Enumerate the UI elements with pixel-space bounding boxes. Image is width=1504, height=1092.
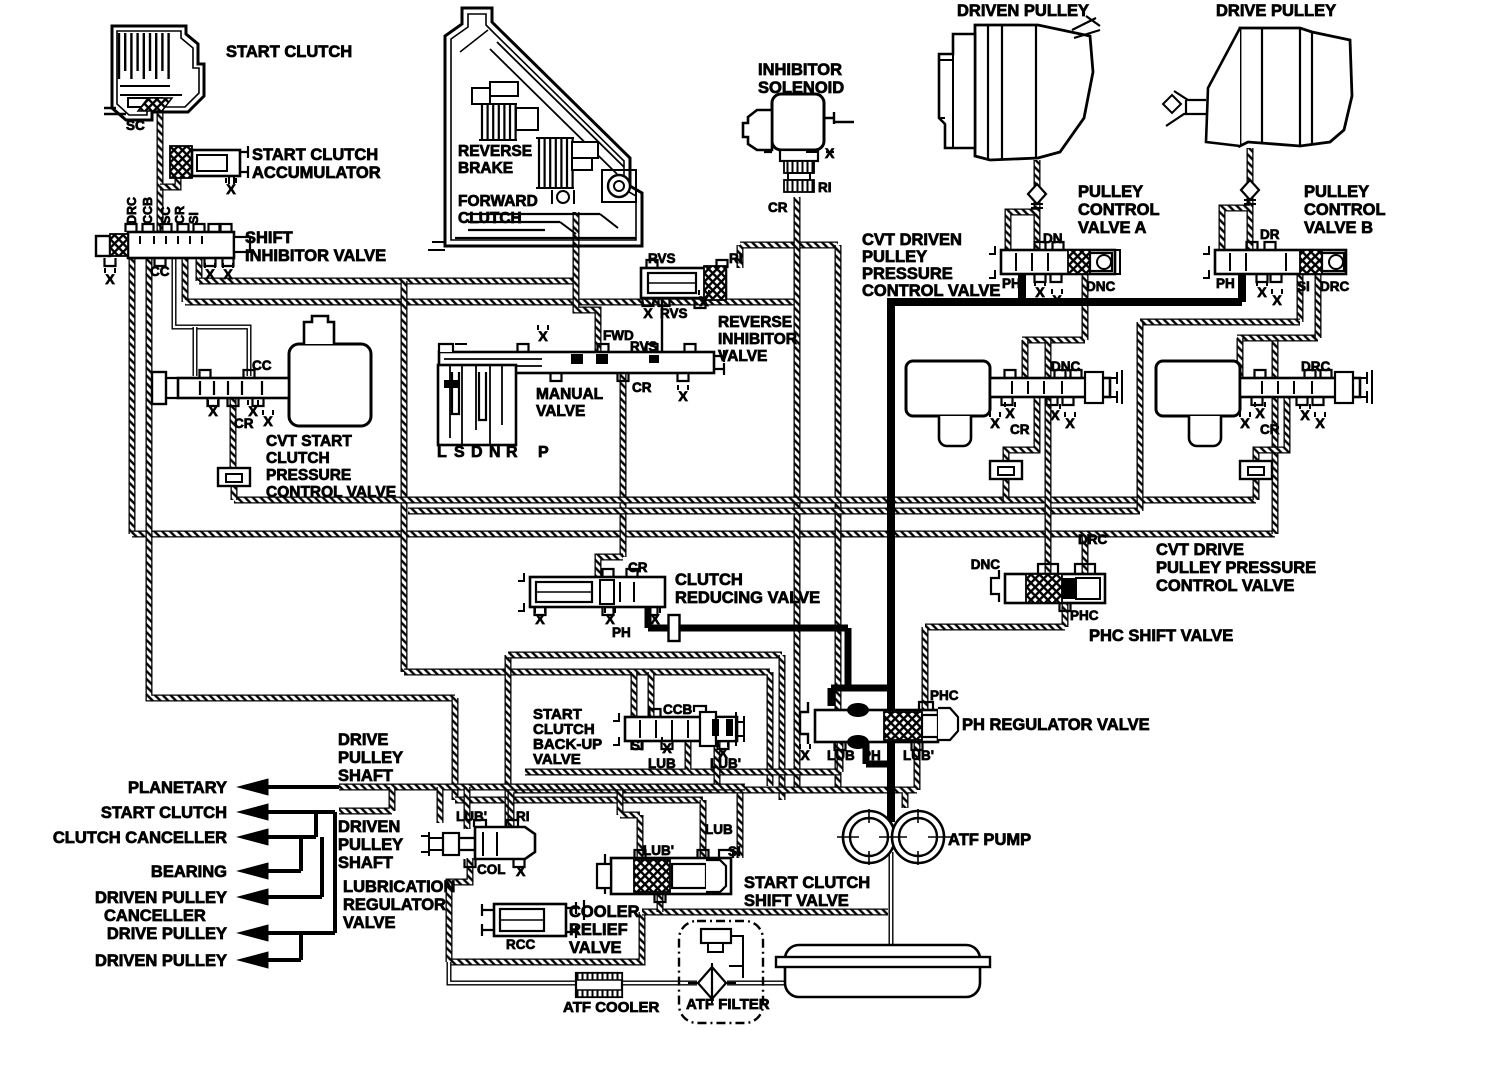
wire DNC long drop to PHC shift valve [1045,340,1052,574]
wire pulley control valve A left loop [1008,212,1037,252]
wire DRC from shift inhibitor valve down [129,258,136,534]
wire CR loop into clutch reducing valve [598,557,623,577]
svg-text:RI: RI [516,809,530,824]
svg-text:X: X [1005,405,1015,421]
wire start clutch shift valve bottom link [657,894,664,912]
arrow tree riser clutch canceller [314,812,318,837]
arrow line y=933 [238,925,335,941]
svg-text:P: P [538,444,549,461]
wire PH line from clutch reducing valve [648,607,891,688]
wire CR elbow toward start clutch shift valve [740,790,797,858]
orifice below driven PCV [990,461,1022,479]
svg-text:CCB: CCB [663,702,692,717]
svg-text:X: X [1052,292,1062,308]
svg-text:PRESSURE: PRESSURE [862,265,953,283]
cooler relief valve [482,900,584,938]
wire LUB run PH regulator to back-up valve [525,740,840,772]
svg-text:X: X [205,266,215,282]
svg-text:ATF FILTER: ATF FILTER [686,996,770,1013]
ATF strainer pan [776,945,990,997]
start clutch accumulator [170,146,248,184]
svg-text:X: X [226,181,236,197]
svg-text:START CLUTCH: START CLUTCH [252,146,378,164]
svg-text:ATF PUMP: ATF PUMP [948,831,1031,849]
pulley control valve B [1203,242,1346,282]
LSDNR P gauge [438,365,516,445]
svg-text:PHC: PHC [930,688,959,703]
svg-text:BEARING: BEARING [151,863,227,881]
arrow tree riser drive pulley [333,812,337,933]
wire lube branch LUB-prime into regulator valve [464,787,471,829]
svg-text:CONTROL: CONTROL [1078,201,1160,219]
svg-text:D: D [471,444,483,461]
wire LUB port drop into start clutch shift valve [700,800,707,858]
orifice on PH line after clutch reducing valve [669,615,680,641]
svg-text:REGULATOR: REGULATOR [343,896,446,914]
svg-text:PH: PH [612,625,631,640]
svg-text:X: X [800,747,810,763]
svg-text:DNC: DNC [1051,359,1080,374]
label X left of shift inhibitor [105,268,115,287]
start clutch back-up valve [613,706,744,749]
wire drive PCV CR drop [1256,396,1287,462]
inhibitor solenoid [743,94,854,192]
svg-text:INHIBITOR VALVE: INHIBITOR VALVE [245,247,386,265]
wire DNC stub from pulley control valve A [1082,274,1089,340]
svg-text:START CLUTCH: START CLUTCH [744,874,870,892]
CVT start clutch pressure control valve [152,316,371,426]
orifice below CVT start clutch PCV [218,468,250,486]
svg-text:PULLEY PRESSURE: PULLEY PRESSURE [1156,559,1316,577]
labels below reverse inhibitor valve [643,302,653,321]
svg-text:VALVE B: VALVE B [1304,219,1373,237]
svg-text:CCB: CCB [141,197,155,224]
wire LUB-prime drop to start clutch shift valve [620,790,640,858]
svg-text:CONTROL: CONTROL [1304,201,1386,219]
arrow line y=871 [238,863,301,879]
wire CC to lube area riser [452,698,459,800]
svg-text:DRIVE: DRIVE [338,731,388,749]
svg-text:PRESSURE: PRESSURE [266,467,351,484]
arrow line y=837 [238,829,316,845]
shaft connector diamond drive [1241,180,1259,200]
arrow line y=960 [238,952,301,968]
ATF pump [837,809,952,865]
svg-text:VALVE: VALVE [536,403,585,420]
svg-text:DRIVEN PULLEY: DRIVEN PULLEY [957,2,1089,20]
wire back-up valve box left side [505,655,512,829]
svg-text:INHIBITOR: INHIBITOR [718,331,797,348]
orifice below drive PCV [1240,461,1272,479]
PH regulator valve [800,702,958,750]
svg-text:LUB': LUB' [903,748,934,763]
labels X below valve A [1035,281,1045,300]
shaft connector diamond driven [1028,184,1046,204]
svg-text:REDUCING VALVE: REDUCING VALVE [675,589,820,607]
wire ATF cooler line [449,962,697,983]
svg-text:X: X [535,611,545,627]
label X manual valve left [538,325,548,344]
svg-text:VALVE: VALVE [569,939,622,957]
svg-text:LUBRICATION: LUBRICATION [343,878,455,896]
svg-text:S: S [454,444,465,461]
wire lube branch to regulator valve cap [437,787,444,823]
wire back-up valve box right side [779,655,786,800]
shift inhibitor valve [96,224,250,266]
labels X below driven PCV [1005,402,1015,421]
svg-text:SC: SC [126,118,145,133]
wire RI elbow into lube regulator valve [511,790,838,829]
svg-text:LUB: LUB [705,822,733,837]
svg-text:DRIVE PULLEY: DRIVE PULLEY [107,925,227,943]
svg-text:PH REGULATOR VALVE: PH REGULATOR VALVE [962,716,1150,734]
svg-text:CR: CR [1010,422,1030,437]
svg-text:CLUTCH: CLUTCH [266,450,330,467]
wire SI mid horizontal run [408,508,1140,515]
wire driven pulley shaft lube line [339,787,392,811]
svg-text:X: X [1257,284,1267,300]
wire DRC drop into drive PCV [1237,338,1244,377]
labels X below valve B [1257,281,1267,300]
svg-text:X: X [1255,405,1265,421]
PHC shift valve [991,564,1105,611]
svg-text:LUB: LUB [648,756,676,771]
wire drive pulley shaft feed [1247,148,1254,252]
wire CC thin loop left leg [193,327,198,376]
wire DRC loop above drive PCV [1237,335,1318,342]
svg-text:DRIVEN PULLEY: DRIVEN PULLEY [95,889,227,907]
svg-text:PULLEY: PULLEY [862,248,927,266]
wire CR mid horizontal run [234,497,1256,504]
svg-text:X: X [990,415,1000,431]
svg-text:CLUTCH: CLUTCH [458,210,522,227]
clutch reducing valve [518,569,665,615]
wire PH thick main horizontal [887,298,1242,306]
CVT drive pulley pressure control valve [1156,361,1372,446]
svg-text:DRIVEN PULLEY: DRIVEN PULLEY [95,952,227,970]
svg-text:X: X [1240,415,1250,431]
wire PHC drop to PH regulator valve [922,627,929,712]
svg-text:PULLEY: PULLEY [1304,183,1369,201]
svg-text:LUB': LUB' [643,843,674,858]
svg-text:COOLER: COOLER [569,903,640,921]
wire CVT start clutch PCV CR drop [230,396,237,468]
wire DRC riser to pulley control valve B side [1272,338,1279,534]
wire filter to strainer line [727,981,785,986]
svg-text:PHC SHIFT VALVE: PHC SHIFT VALVE [1089,627,1233,645]
wire PH regulator top port stub [831,688,848,706]
svg-text:SHIFT VALVE: SHIFT VALVE [744,892,849,910]
lubrication regulator valve [421,820,535,867]
svg-text:SHIFT: SHIFT [245,229,293,247]
svg-text:CLUTCH CANCELLER: CLUTCH CANCELLER [53,829,227,847]
svg-text:DRC: DRC [125,197,139,224]
wire elbow to back-up valve box [404,672,770,786]
wire LUB-prime run [620,740,917,808]
svg-text:CC: CC [252,358,272,373]
svg-text:X: X [263,413,273,429]
wire CR from shift inhibitor valve [182,258,189,302]
svg-text:CANCELLER: CANCELLER [104,907,206,925]
wire SI elbow run [1140,319,1300,326]
svg-text:CVT START: CVT START [266,433,352,450]
svg-text:X: X [223,266,233,282]
svg-text:CR: CR [1260,422,1280,437]
arrow tree riser driven pulley canceller [320,837,324,897]
svg-text:RVS: RVS [660,306,688,321]
arrow line y=812 [238,804,335,820]
svg-text:START CLUTCH: START CLUTCH [226,43,352,61]
svg-text:DR: DR [1260,227,1280,242]
svg-text:PH: PH [862,748,881,763]
wire accumulator drain to SC line [160,174,178,187]
svg-text:COL: COL [477,862,506,877]
svg-text:CONTROL VALVE: CONTROL VALVE [266,484,396,501]
svg-text:DNC: DNC [971,557,1000,572]
svg-text:SHAFT: SHAFT [338,854,393,872]
wire drive pulley shaft lube line [339,784,745,791]
start clutch drawing [104,26,204,120]
svg-text:SOLENOID: SOLENOID [758,79,844,97]
svg-text:DRC: DRC [1320,279,1349,294]
svg-text:RVS: RVS [630,339,658,354]
wire SC line from start clutch to shift inhibitor valve [157,108,164,232]
svg-text:X: X [1315,415,1325,431]
wire SI stub from pulley control valve B [1297,274,1304,322]
arrow line y=787 [238,779,339,795]
pulley control valve A [989,242,1120,282]
svg-text:X: X [538,328,548,344]
svg-text:DNC: DNC [1086,279,1115,294]
labels below PH regulator [800,744,810,763]
svg-text:LUB': LUB' [710,756,741,771]
arrow tree riser bearing [299,837,303,871]
manual valve [439,344,724,381]
svg-text:SI: SI [1297,279,1310,294]
svg-text:PH: PH [1216,276,1235,291]
wire driven PCV CR below orifice [1003,478,1010,500]
wire DRC stub from pulley control valve B [1315,274,1322,338]
ATF filter [679,921,763,1023]
wire CCB stub to back-up valve [634,672,651,717]
svg-text:CR: CR [234,416,254,431]
svg-text:PULLEY: PULLEY [338,749,403,767]
svg-text:X: X [643,305,653,321]
svg-text:CVT DRIVEN: CVT DRIVEN [862,231,962,249]
driven pulley drawing [939,16,1100,160]
wire RI run from reverse inhibitor valve to solenoid [740,245,838,268]
svg-text:L: L [437,444,447,461]
svg-text:CR: CR [628,560,648,575]
svg-text:REVERSE: REVERSE [718,314,792,331]
wire CVT start clutch PCV CR below orifice [231,486,238,500]
svg-text:X: X [1272,292,1282,308]
svg-text:SI: SI [631,738,644,753]
wire DNC loop above driven PCV [1022,337,1085,344]
svg-text:X: X [699,293,709,309]
wire box riser right of CVT start clutch PCV [401,281,408,672]
svg-text:PH: PH [1002,276,1021,291]
wire CC long line from shift inhibitor valve [149,258,455,698]
wire SI horizontal run to manual valve FWD [199,278,576,285]
svg-text:RVS: RVS [648,251,676,266]
wire RVS thin link reverse inhibitor to manual valve [661,298,663,352]
svg-text:X: X [662,740,672,756]
svg-text:BRAKE: BRAKE [458,160,513,177]
labels X and CR at CVT start clutch PCV [208,400,218,419]
svg-text:VALVE: VALVE [343,914,396,932]
svg-text:REVERSE: REVERSE [458,143,532,160]
svg-text:CR: CR [173,206,187,224]
wire COL line from lube regulator to cooler relief valve [449,858,470,962]
wire CR horizontal run to inhibitor solenoid [185,299,797,306]
arrow tree riser driven pulley [299,933,303,960]
svg-text:DRIVEN: DRIVEN [338,818,400,836]
svg-text:DRC: DRC [1301,359,1330,374]
svg-text:DN: DN [1043,231,1063,246]
svg-text:SI: SI [728,844,741,859]
wire PH stub pulley control valve A [1018,274,1026,302]
reverse brake and forward clutch housing [428,8,642,250]
svg-text:PULLEY: PULLEY [338,836,403,854]
svg-text:SHAFT: SHAFT [338,767,393,785]
svg-text:X: X [105,271,115,287]
svg-text:X: X [1035,284,1045,300]
svg-text:SC: SC [159,207,173,224]
wire SI riser drop [1137,322,1144,511]
wire lube horizontal to start clutch shift valve [455,797,703,804]
wire CC thin loop to CVT start clutch PCV [174,258,249,376]
wire main DRC horizontal run [132,531,1275,538]
svg-text:CVT DRIVE: CVT DRIVE [1156,541,1244,559]
svg-text:R: R [506,444,518,461]
drive pulley drawing [1163,28,1352,146]
label X manual valve right [678,385,688,404]
svg-text:CONTROL VALVE: CONTROL VALVE [862,282,1000,300]
wire DNC drop into driven PCV [1022,340,1029,377]
svg-text:X: X [650,611,660,627]
svg-text:X: X [208,403,218,419]
svg-text:LUB': LUB' [456,809,487,824]
svg-text:START CLUTCH: START CLUTCH [101,804,227,822]
svg-text:X: X [825,145,835,161]
svg-text:FORWARD: FORWARD [458,193,538,210]
label X accumulator [226,178,236,197]
wire drive PCV CR below orifice [1253,478,1260,500]
svg-text:ACCUMULATOR: ACCUMULATOR [252,164,381,182]
svg-text:PULLEY: PULLEY [1078,183,1143,201]
wire PHC from shift valve down [1062,603,1069,627]
svg-text:VALVE: VALVE [718,348,767,365]
wire DRC stub into PHC shift valve [1082,534,1089,574]
labels X below shift inhibitor [205,263,215,282]
svg-text:CONTROL VALVE: CONTROL VALVE [1156,577,1294,595]
labels X below clutch reducing valve [535,608,545,627]
wire RI long drop [835,245,842,790]
wire forward clutch feed down [573,212,580,286]
start clutch shift valve [597,850,733,902]
wire manual valve CR drop [620,373,627,557]
svg-text:VALVE: VALVE [533,751,581,768]
arrow line y=897 [238,889,322,905]
svg-text:INHIBITOR: INHIBITOR [758,61,842,79]
svg-text:DRIVE PULLEY: DRIVE PULLEY [1216,2,1336,20]
wire cooler relief valve loop [449,912,642,962]
labels X below drive PCV [1255,402,1265,421]
svg-text:CR: CR [768,200,788,215]
svg-text:X: X [1300,407,1310,423]
svg-text:CR: CR [632,380,652,395]
svg-text:RELIEF: RELIEF [569,921,628,939]
svg-text:CC: CC [150,264,170,279]
wire driven pulley shaft feed [1034,160,1041,252]
wire pump suction to strainer [889,852,894,957]
svg-text:X: X [1050,407,1060,423]
wire FWD staircase into manual valve [576,281,598,352]
svg-text:X: X [1065,415,1075,431]
wire PH regulator bottom PH stub [866,742,891,764]
svg-text:LUB: LUB [827,748,855,763]
wire PHC horizontal run [925,624,1065,631]
svg-text:MANUAL: MANUAL [536,386,603,403]
wire cooler return line [642,909,888,916]
wire CR solenoid long drop [794,197,801,790]
ATF cooler [576,973,622,997]
svg-text:N: N [489,444,501,461]
svg-text:ATF COOLER: ATF COOLER [563,999,660,1016]
svg-text:PLANETARY: PLANETARY [128,779,227,797]
svg-text:X: X [678,388,688,404]
svg-text:RCC: RCC [506,937,535,952]
svg-text:DRC: DRC [1078,532,1107,547]
wire PH stub pulley control valve B [1238,274,1246,302]
svg-text:X: X [516,863,526,879]
svg-text:SI: SI [187,212,201,224]
wire back-up valve box top [508,652,782,659]
wire pulley control valve B left loop [1222,208,1250,252]
CVT driven pulley pressure control valve [906,361,1122,446]
reverse inhibitor valve [641,260,728,308]
svg-text:CLUTCH: CLUTCH [675,571,743,589]
svg-text:RI: RI [818,180,832,195]
wire PH main drop to ATF pump [887,302,895,822]
wire SI from shift inhibitor valve [196,258,203,281]
wire driven PCV CR drop [1006,396,1037,462]
svg-text:VALVE A: VALVE A [1078,219,1147,237]
svg-text:PHC: PHC [1070,608,1099,623]
svg-text:RI: RI [729,251,743,266]
